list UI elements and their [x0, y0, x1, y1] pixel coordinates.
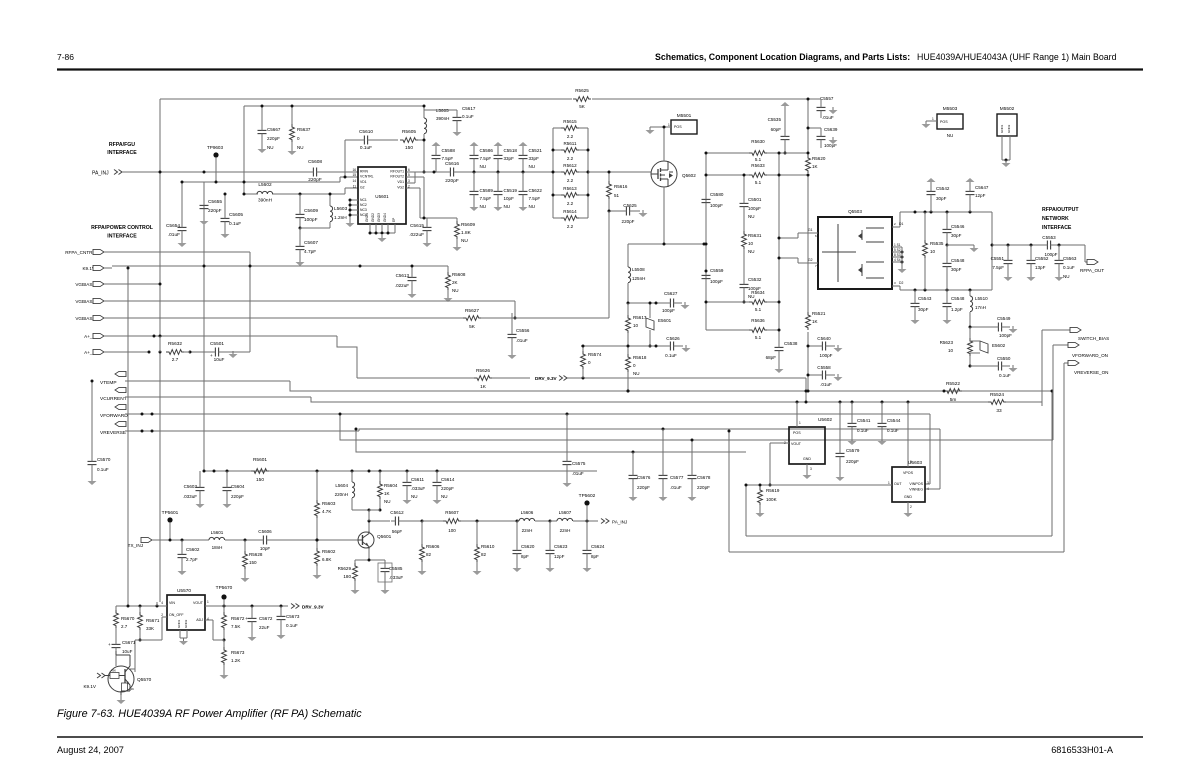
svg-text:R5522: R5522: [946, 381, 960, 387]
wire Q5602 drain: [663, 126, 666, 162]
resistor R5604: [369, 471, 398, 512]
svg-text:R5601: R5601: [253, 457, 267, 463]
svg-text:30pF: 30pF: [918, 307, 929, 312]
header rule: [57, 68, 1143, 70]
wire top loop H1: [160, 98, 808, 100]
svg-text:R5521: R5521: [812, 311, 826, 316]
svg-text:NU: NU: [480, 204, 487, 209]
svg-text:C5559: C5559: [710, 268, 724, 273]
svg-text:GND4: GND4: [383, 213, 387, 222]
svg-text:NU: NU: [452, 288, 459, 293]
svg-text:M5501: M5501: [677, 113, 692, 119]
connector K9.1V: [82, 265, 112, 270]
resistor R5608: [412, 266, 466, 302]
wire PA_INJ bus: [122, 171, 358, 174]
svg-text:3: 3: [408, 179, 410, 183]
svg-text:C5577: C5577: [670, 475, 684, 480]
svg-text:100pF: 100pF: [999, 333, 1012, 338]
svg-text:1: 1: [888, 481, 890, 485]
svg-text:.01uF: .01uF: [822, 115, 834, 120]
svg-text:68pF: 68pF: [766, 355, 777, 360]
svg-text:RFPA/OUTPUT: RFPA/OUTPUT: [1042, 207, 1079, 213]
svg-text:C5589: C5589: [480, 188, 494, 193]
svg-text:R5615: R5615: [563, 119, 577, 124]
capacitor C5602: [178, 540, 200, 575]
footer left: [57, 745, 124, 755]
svg-text:EP: EP: [392, 218, 396, 222]
svg-text:R5607: R5607: [445, 510, 459, 515]
svg-text:R5604: R5604: [384, 483, 398, 488]
svg-text:16: 16: [352, 168, 356, 172]
svg-text:R5613: R5613: [563, 186, 577, 191]
svg-text:1 S1: 1 S1: [894, 243, 901, 247]
svg-text:VFORWARD: VFORWARD: [100, 413, 128, 419]
svg-text:1: 1: [799, 421, 801, 425]
svg-text:INTERFACE: INTERFACE: [107, 234, 137, 240]
svg-text:M5503: M5503: [943, 106, 958, 112]
thermistor E5602: [970, 341, 1006, 353]
capacitor C5654: [166, 181, 187, 248]
wire Q5503 source pins: [892, 243, 907, 273]
svg-text:GND1: GND1: [177, 619, 181, 628]
svg-text:Figure 7-63. HUE4039A RF Power: Figure 7-63. HUE4039A RF Power Amplifier…: [57, 708, 362, 720]
resistor R5628: [241, 540, 263, 582]
svg-text:R5632: R5632: [168, 341, 182, 347]
svg-text:5: 5: [408, 173, 410, 177]
svg-text:C5639: C5639: [824, 127, 838, 132]
svg-text:G2: G2: [360, 186, 365, 190]
svg-text:NU: NU: [504, 204, 511, 209]
svg-text:4: 4: [927, 487, 929, 491]
capacitor C5607: [296, 228, 319, 266]
svg-text:L5603: L5603: [334, 206, 348, 212]
svg-text:0.1uF: 0.1uF: [229, 221, 241, 227]
svg-text:33: 33: [996, 408, 1002, 414]
footer rule: [57, 736, 1143, 738]
svg-text:U5602: U5602: [818, 417, 832, 423]
svg-text:G1: G1: [808, 228, 813, 232]
svg-text:GND3: GND3: [377, 213, 381, 222]
svg-text:NU: NU: [480, 164, 487, 169]
testpoint TP5601: [162, 510, 179, 540]
wire RFOUT bus: [406, 171, 553, 174]
capacitor C5542: [927, 178, 950, 212]
svg-text:RFIN: RFIN: [360, 170, 368, 174]
svg-text:GND1: GND1: [1000, 124, 1004, 133]
svg-text:C5575: C5575: [572, 461, 586, 466]
svg-text:NU: NU: [1063, 274, 1070, 279]
svg-text:15: 15: [352, 173, 356, 177]
transistor Q5602: [651, 161, 696, 187]
svg-text:5 S2: 5 S2: [894, 248, 901, 252]
wire ON_OFF net: [135, 617, 167, 672]
svg-text:1K: 1K: [384, 491, 390, 496]
resistor R5615: [553, 119, 588, 139]
connector VGBIAS2: [75, 298, 112, 303]
svg-text:C5541: C5541: [857, 418, 871, 423]
svg-text:5.1: 5.1: [755, 157, 762, 162]
wire rail x992: [991, 212, 994, 290]
resistor R5614: [553, 209, 588, 229]
svg-text:C5673: C5673: [286, 614, 300, 619]
wire row440: [339, 413, 1054, 441]
svg-text:L5510: L5510: [975, 296, 988, 301]
wire U5602 rail: [796, 401, 910, 404]
svg-text:14: 14: [352, 179, 356, 183]
svg-text:K9.1V: K9.1V: [83, 684, 96, 689]
svg-text:3: 3: [927, 481, 929, 485]
svg-text:220pF: 220pF: [697, 485, 710, 490]
wire Q5503 D2: [892, 281, 903, 290]
svg-text:C5579: C5579: [846, 448, 860, 453]
capacitor C5586: [470, 142, 494, 174]
svg-text:TX_INJ: TX_INJ: [128, 543, 143, 548]
svg-text:NC1: NC1: [360, 198, 367, 202]
svg-text:U5601: U5601: [375, 194, 389, 199]
regulator U5602: [769, 402, 833, 487]
svg-text:VREVERSE: VREVERSE: [100, 430, 126, 436]
svg-text:10: 10: [930, 249, 936, 254]
inductor L5606: [517, 510, 552, 533]
svg-text:VFORWARD_ON: VFORWARD_ON: [1072, 353, 1108, 358]
capacitor C5550: [970, 356, 1018, 378]
svg-text:8pF: 8pF: [591, 554, 599, 559]
svg-text:60pF: 60pF: [771, 127, 782, 132]
svg-text:100pF: 100pF: [820, 353, 833, 358]
capacitor C5563: [1055, 245, 1077, 281]
svg-text:C5519: C5519: [504, 188, 518, 193]
node VFORWARD_ON: [1053, 342, 1108, 440]
resistor R5626: [474, 368, 492, 390]
svg-text:TP5602: TP5602: [579, 493, 596, 499]
testpoint TP5602: [579, 493, 596, 521]
capacitor C5546: [943, 212, 965, 247]
svg-text:VINPOS: VINPOS: [909, 482, 923, 486]
resistor R5609: [427, 218, 475, 251]
svg-text:7.5pF: 7.5pF: [480, 196, 492, 201]
svg-text:82: 82: [426, 552, 432, 557]
svg-text:10: 10: [948, 348, 954, 353]
svg-text:E5601: E5601: [658, 318, 672, 323]
inductor L5605: [423, 105, 450, 142]
resistor R5535: [923, 212, 944, 290]
wire A+_1 row: [112, 335, 357, 379]
capacitor C5549: [969, 316, 1018, 338]
svg-text:33pF: 33pF: [529, 156, 540, 161]
wire ADJ net: [205, 620, 224, 640]
resistor R5613: [552, 186, 590, 206]
capacitor C5673: [277, 606, 300, 639]
svg-text:VPOS: VPOS: [903, 471, 914, 475]
capacitor C5538: [766, 334, 798, 373]
svg-text:0.1uF: 0.1uF: [999, 373, 1011, 378]
svg-text:C5678: C5678: [697, 475, 711, 480]
svg-text:C5610: C5610: [359, 129, 373, 135]
svg-text:R5617: R5617: [633, 315, 647, 320]
svg-text:C5501: C5501: [748, 197, 762, 202]
capacitor C5617: [424, 106, 476, 136]
svg-text:C5553: C5553: [1042, 235, 1056, 240]
svg-text:L5607: L5607: [559, 510, 572, 515]
svg-text:C5501: C5501: [210, 341, 224, 347]
transistor Q5601: [358, 531, 392, 549]
svg-text:C5608: C5608: [308, 159, 322, 165]
svg-text:2.7: 2.7: [121, 624, 128, 629]
svg-text:R5671: R5671: [146, 618, 160, 623]
capacitor C5501: [740, 174, 762, 232]
connector TX_INJ: [128, 537, 152, 548]
svg-text:E5602: E5602: [992, 343, 1006, 348]
svg-text:August 24, 2007: August 24, 2007: [57, 745, 124, 755]
testpoint TP9603: [207, 145, 224, 182]
svg-text:VGBIAS3: VGBIAS3: [75, 316, 95, 321]
capacitor C5626: [628, 336, 691, 358]
svg-text:R5574: R5574: [588, 352, 602, 357]
svg-text:NU: NU: [748, 214, 755, 219]
svg-text:C5672: C5672: [259, 616, 273, 621]
svg-text:1.2nH: 1.2nH: [334, 215, 347, 221]
svg-text:GND: GND: [904, 495, 912, 499]
svg-text:.01uF: .01uF: [516, 338, 528, 343]
node VREVERSE_ON: [1064, 360, 1108, 375]
svg-text:DRV_9.3V: DRV_9.3V: [302, 605, 325, 610]
svg-text:RFPA_CNTRL: RFPA_CNTRL: [65, 250, 95, 255]
wire row429: [380, 428, 940, 490]
svg-text:100pF: 100pF: [710, 203, 723, 208]
capacitor C5614: [433, 471, 455, 504]
capacitor C5613: [395, 266, 417, 298]
svg-text:7.5pF: 7.5pF: [442, 156, 454, 161]
svg-text:125nH: 125nH: [632, 276, 645, 281]
svg-text:C5532: C5532: [748, 277, 762, 282]
label RFPA/OUTPUT NETWORK INTERFACE: [1042, 207, 1079, 231]
resistor R5611: [552, 141, 590, 161]
capacitor C5541: [848, 402, 871, 445]
thermistor E5601: [646, 302, 672, 348]
capacitor C5589: [470, 172, 494, 211]
svg-text:+: +: [210, 353, 213, 358]
svg-text:.01uF: .01uF: [670, 485, 682, 490]
svg-text:NU: NU: [384, 499, 391, 504]
capacitor C5544: [878, 402, 901, 445]
svg-text:OUT: OUT: [894, 482, 902, 486]
wire R5601 bus: [203, 470, 598, 473]
svg-text:PA_INJ: PA_INJ: [92, 171, 109, 177]
wire VGBIAS1 row: [112, 283, 162, 286]
svg-text:GND1: GND1: [365, 213, 369, 222]
node RFPA_OUT: [1080, 258, 1104, 273]
capacitor C5623: [546, 521, 568, 572]
svg-text:10: 10: [633, 323, 639, 328]
capacitor C5558: [807, 365, 843, 387]
svg-text:VGBIAS1: VGBIAS1: [75, 282, 95, 287]
svg-text:100pF: 100pF: [748, 206, 761, 211]
wire Q5503 D1: [892, 212, 903, 227]
capacitor C5559: [702, 268, 724, 284]
svg-text:DRV_9.3V: DRV_9.3V: [535, 376, 558, 381]
wire loop1: [746, 390, 1054, 537]
ground C5546 mid: [947, 245, 979, 252]
svg-text:Q5602: Q5602: [682, 173, 696, 178]
svg-text:+: +: [108, 642, 111, 647]
svg-text:C5607: C5607: [304, 240, 318, 246]
svg-text:C5614: C5614: [441, 477, 455, 482]
svg-text:RFOUT2: RFOUT2: [390, 175, 404, 179]
svg-text:C5609: C5609: [304, 208, 318, 214]
svg-text:M5502: M5502: [1000, 106, 1015, 112]
capacitor C5625: [608, 203, 648, 224]
svg-text:220pF: 220pF: [208, 208, 222, 214]
node SWITCH_BIAS: [1042, 327, 1109, 341]
resistor R5605: [400, 129, 426, 174]
connector RFPA_CNTRL: [65, 249, 112, 254]
connector A+_1: [84, 333, 112, 338]
wire Q5570 emitter: [117, 695, 126, 704]
resistor R5672: [222, 606, 245, 642]
svg-text:INTERFACE: INTERFACE: [107, 150, 137, 156]
resistor R5617: [626, 303, 647, 346]
wire right vertical x808: [807, 99, 809, 390]
resistor R5524: [988, 392, 1006, 414]
svg-text:VCNTRL: VCNTRL: [360, 175, 374, 179]
svg-text:VOUT: VOUT: [193, 601, 204, 605]
resistor R5637: [288, 105, 311, 156]
svg-text:NU: NU: [633, 371, 640, 376]
resistor R5673: [220, 640, 245, 679]
node PA_INJ out: [601, 519, 627, 525]
resistor R5601: [251, 457, 269, 483]
node DRV_9.3V mid: [535, 376, 567, 382]
capacitor C5518: [494, 142, 518, 174]
svg-text:3: 3: [810, 467, 812, 471]
svg-text:R5620: R5620: [812, 156, 826, 161]
resistor R5631: [742, 231, 762, 281]
wire ladder to bus: [588, 171, 651, 173]
svg-text:22nH: 22nH: [560, 528, 571, 533]
svg-text:NU: NU: [748, 249, 755, 254]
svg-text:10pF: 10pF: [260, 546, 271, 551]
capacitor C5612: [390, 510, 423, 534]
svg-text:VTEMP: VTEMP: [100, 380, 117, 386]
svg-text:HUE4039A/HUE4043A (UHF Range 1: HUE4039A/HUE4043A (UHF Range 1) Main Boa…: [917, 52, 1117, 62]
svg-text:C5521: C5521: [529, 148, 543, 153]
svg-text:C5626: C5626: [666, 336, 680, 341]
resistor R5636: [706, 318, 781, 340]
svg-text:390nH: 390nH: [436, 116, 449, 121]
svg-text:100pF: 100pF: [304, 217, 318, 223]
svg-text:R5524: R5524: [990, 392, 1004, 398]
svg-text:220pF: 220pF: [231, 494, 244, 499]
svg-text:0.1uF: 0.1uF: [97, 467, 109, 472]
capacitor C5521: [519, 142, 543, 174]
svg-text:C5552: C5552: [1035, 256, 1049, 261]
svg-text:R5631: R5631: [748, 233, 762, 238]
svg-text:C5556: C5556: [516, 328, 530, 333]
wire Q5570 base: [130, 669, 135, 672]
svg-text:PA_INJ: PA_INJ: [612, 520, 627, 525]
capacitor C5575: [563, 414, 586, 487]
resistor R5602: [313, 540, 336, 579]
module M5503: [922, 106, 964, 138]
svg-text:U5570: U5570: [177, 588, 191, 594]
svg-text:R5602: R5602: [322, 549, 336, 554]
svg-text:TP5601: TP5601: [162, 510, 179, 516]
wire Q5602 source: [628, 187, 706, 246]
svg-text:8pF: 8pF: [521, 554, 529, 559]
wire VCURRENT row: [125, 397, 360, 402]
connector VFORWARD: [100, 404, 128, 419]
capacitor C5678: [688, 439, 711, 502]
capacitor C5570: [88, 380, 111, 486]
capacitor C5611: [403, 471, 426, 504]
resistor R5670: [114, 610, 135, 638]
svg-text:0.1uF: 0.1uF: [360, 145, 372, 151]
svg-text:C5518: C5518: [504, 148, 518, 153]
svg-text:R5608: R5608: [452, 272, 466, 277]
capacitor C5535: [768, 102, 790, 155]
svg-text:C5604: C5604: [231, 484, 245, 489]
svg-text:VINNEG: VINNEG: [909, 488, 923, 492]
wire RFOUT2 branch: [406, 172, 424, 218]
svg-text:C5655: C5655: [208, 199, 222, 205]
svg-text:C5676: C5676: [637, 475, 651, 480]
svg-text:L5602: L5602: [258, 182, 272, 188]
wire loop2: [728, 363, 1065, 552]
svg-text:C5617: C5617: [462, 106, 476, 111]
svg-text:51: 51: [614, 193, 620, 198]
wire Q5503 G1: [778, 228, 819, 240]
wire VFORWARD row: [125, 413, 334, 416]
svg-text:150: 150: [256, 477, 264, 483]
svg-text:C5640: C5640: [817, 336, 831, 341]
wire left vertical x160: [159, 99, 161, 602]
svg-text:1.8K: 1.8K: [461, 230, 472, 236]
svg-text:C5558: C5558: [817, 365, 831, 370]
wire row346: [581, 345, 630, 348]
wire vertical x204: [203, 182, 205, 471]
svg-text:R5637: R5637: [297, 127, 311, 132]
resistor R5629: [338, 560, 360, 594]
svg-text:12pF: 12pF: [554, 554, 565, 559]
wire VREVERSE row: [125, 429, 380, 433]
svg-text:30pF: 30pF: [936, 196, 947, 201]
wire Q5601 collector: [368, 520, 391, 532]
svg-text:R5636: R5636: [751, 318, 765, 323]
svg-text:10: 10: [748, 241, 754, 246]
svg-text:C5602: C5602: [186, 547, 200, 552]
svg-text:D2: D2: [899, 281, 903, 285]
svg-text:0.1uF: 0.1uF: [286, 623, 298, 628]
transistor Q5503: [818, 209, 892, 289]
resistor R5627: [463, 308, 481, 330]
svg-text:2.2: 2.2: [567, 178, 574, 183]
capacitor C5557: [807, 96, 838, 120]
svg-text:.022uF: .022uF: [409, 232, 424, 238]
svg-text:.01uF: .01uF: [820, 382, 832, 387]
svg-text:C5622: C5622: [529, 188, 543, 193]
svg-text:0.1uF: 0.1uF: [462, 114, 474, 119]
svg-text:C5570: C5570: [97, 457, 111, 462]
svg-text:22uF: 22uF: [259, 625, 270, 630]
svg-text:1.2pF: 1.2pF: [951, 307, 963, 312]
svg-text:POS: POS: [940, 120, 948, 124]
svg-text:SWITCH_BIAS: SWITCH_BIAS: [1078, 336, 1109, 341]
svg-text:VGBIAS2: VGBIAS2: [75, 299, 95, 304]
wire U5601 NC pins: [346, 199, 359, 228]
svg-text:10uF: 10uF: [122, 649, 133, 654]
capacitor C5603: [183, 471, 205, 508]
wire VGBIAS3 row: [112, 211, 609, 318]
